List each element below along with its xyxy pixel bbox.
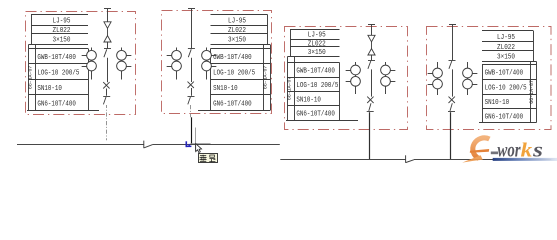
disconnect switch in right busbar: [406, 155, 414, 163]
wire: feeder 4 main between switch and breaker: [452, 69, 454, 96]
svg-text:GWB-10T/400: GWB-10T/400: [37, 54, 76, 62]
svg-text:LOG-10 200/5: LOG-10 200/5: [485, 84, 527, 92]
circuit breaker mark (feeder 1): [103, 82, 109, 88]
svg-text:SN10-10: SN10-10: [485, 99, 510, 107]
svg-text:SN10-10: SN10-10: [37, 85, 62, 93]
wire: feeder 3 main between switch and breaker: [371, 69, 373, 96]
bus: right section busbar: [280, 159, 551, 161]
e-works logo: big orange e: [462, 138, 489, 163]
svg-text:GN6-10T/400: GN6-10T/400: [296, 111, 335, 119]
wire: feeder 2 riser from bus tap: [188, 9, 195, 49]
wire: feeder 2 main between switch and breaker: [191, 58, 193, 82]
CAD crosshair cursor: [190, 128, 210, 152]
svg-text:GWB-10T/400: GWB-10T/400: [213, 54, 252, 62]
wire: feeder 2 below breaker: [191, 88, 193, 96]
svg-text:GN6-10T/400: GN6-10T/400: [485, 113, 523, 121]
svg-text:3×150: 3×150: [53, 37, 71, 45]
wire: feeder 1 unfinished tail (dash-dot): [106, 105, 108, 140]
current transformers TA (right) feeder 2: [202, 48, 217, 80]
svg-text:GWB-10T/400: GWB-10T/400: [485, 69, 523, 77]
disconnect switch QS2 (feeder 4): [448, 103, 455, 111]
svg-text:LOG-10 200/5: LOG-10 200/5: [296, 82, 338, 90]
svg-text:3×150: 3×150: [308, 49, 326, 57]
feeder 3 spec table frame: [286, 30, 358, 121]
feeder 2 spec table frame: [198, 15, 271, 111]
wire: feeder 1 below breaker: [106, 89, 108, 96]
svg-text:GG-1A-07: GG-1A-07: [286, 76, 293, 100]
svg-text:ZL022: ZL022: [497, 44, 515, 52]
wire: feeder 2 tail (dash-dot): [190, 105, 192, 117]
disconnect switch QS2 (feeder 3): [367, 103, 374, 111]
svg-text:SN10-10: SN10-10: [213, 85, 238, 93]
svg-text:LOG-10 200/5: LOG-10 200/5: [213, 69, 255, 77]
surge arrester F1 (spark-gap triangles): [104, 22, 111, 42]
wire: feeder 4 riser from bus tap: [449, 25, 456, 61]
feeder 1 spec table frame: [27, 15, 99, 111]
current transformers TA (right) feeder 4: [463, 62, 478, 95]
wire: feeder 1 riser from bus tap: [104, 9, 111, 22]
cubicle outline (feeder 2, dashed red): [162, 11, 272, 114]
svg-text:3×150: 3×150: [228, 37, 246, 45]
circuit breaker mark (feeder 4): [449, 97, 455, 103]
svg-text:ZL022: ZL022: [308, 40, 326, 48]
bus: left section busbar: [17, 144, 280, 146]
current transformers TA (left) feeder 3: [346, 62, 361, 94]
current transformers TA (left) feeder 4: [428, 62, 443, 95]
cubicle outline (feeder 4, dashed red): [427, 27, 552, 130]
wire: feeder 2 new segment being drawn to bus: [191, 117, 193, 144]
disconnect switch QS1 (feeder 4): [449, 61, 456, 69]
current transformers TA (left) feeder 2: [167, 48, 182, 80]
svg-text:GG-1A-07: GG-1A-07: [27, 65, 34, 89]
feeder 4 spec table frame: [479, 31, 537, 123]
e-works logo: works text: [497, 141, 543, 162]
svg-text:3×150: 3×150: [497, 53, 515, 61]
svg-text:LJ-95: LJ-95: [308, 32, 326, 40]
snap tooltip box: [199, 154, 218, 163]
svg-text:LOG-10 200/5: LOG-10 200/5: [37, 69, 79, 77]
wire: feeder 1 below arrester: [107, 42, 109, 49]
svg-text:SN10-10: SN10-10: [296, 96, 321, 104]
wire: feeder 3 below arrester: [371, 55, 373, 60]
surge arrester F3 (spark-gap triangles): [368, 35, 375, 55]
disconnect switch in left busbar: [144, 141, 153, 149]
wire: feeder 3 riser from bus tap: [368, 25, 375, 36]
disconnect switch QS1 (feeder 2): [188, 49, 195, 58]
e-works logo: hyphen: [491, 152, 498, 155]
wire: feeder 1 main between switch and breaker: [107, 58, 109, 82]
svg-text:LJ-95: LJ-95: [497, 34, 515, 42]
perpendicular osnap marker (blue): [186, 141, 192, 147]
disconnect switch QS1 (feeder 3): [368, 61, 375, 69]
wire: feeder 4 drop to section bus: [450, 112, 452, 160]
current transformers TA (left) feeder 1: [82, 48, 97, 80]
svg-text:LJ-95: LJ-95: [53, 17, 71, 25]
circuit breaker mark (feeder 2): [188, 82, 194, 88]
wire: feeder 3 drop to section bus: [369, 112, 371, 160]
disconnect switch QS1 (feeder 1): [104, 49, 111, 58]
svg-text:GN6-10T/400: GN6-10T/400: [213, 100, 252, 108]
svg-text:GG-1A-07: GG-1A-07: [262, 65, 269, 89]
e-works logo: blue underline bar: [493, 158, 557, 161]
mouse arrow pointer: [196, 144, 202, 153]
tooltip text 垂足 (drawn strokes): [200, 155, 216, 162]
cubicle outline (feeder 1, dashed red): [26, 12, 136, 115]
svg-text:ZL022: ZL022: [228, 27, 246, 35]
cubicle outline (feeder 3, dashed red): [285, 27, 408, 130]
svg-text:ZL022: ZL022: [53, 27, 71, 35]
svg-text:GN6-10T/400: GN6-10T/400: [37, 100, 76, 108]
svg-text:LJ-95: LJ-95: [228, 17, 246, 25]
svg-text:GG-1A-07: GG-1A-07: [528, 80, 535, 104]
disconnect switch QS2 (feeder 1): [103, 97, 110, 105]
svg-text:GWB-10T/400: GWB-10T/400: [296, 68, 335, 76]
disconnect switch QS2 (feeder 2): [188, 97, 195, 105]
circuit breaker mark (feeder 3): [367, 97, 373, 103]
current transformers TA (right) feeder 1: [117, 48, 132, 80]
current transformers TA (right) feeder 3: [381, 62, 396, 94]
